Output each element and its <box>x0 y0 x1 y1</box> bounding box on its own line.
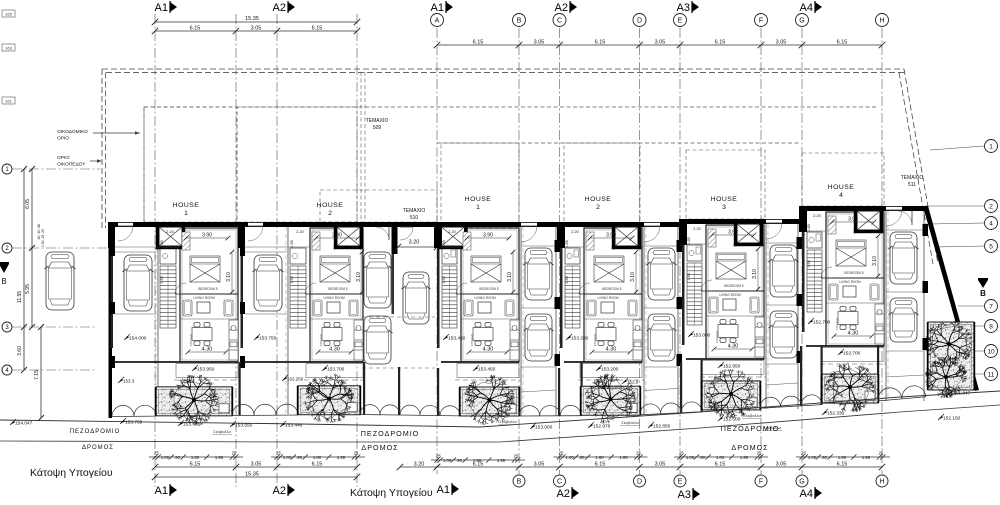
svg-text:153.3: 153.3 <box>123 379 135 384</box>
dining table <box>596 323 616 346</box>
svg-text:25: 25 <box>154 451 159 456</box>
plot boundary: double dashed outer property line <box>102 69 904 228</box>
svg-text:Σκυβαλλα: Σκυβαλλα <box>621 420 639 425</box>
svg-text:4.30: 4.30 <box>606 347 617 353</box>
car 1 <box>524 248 554 300</box>
light shaft <box>438 227 467 249</box>
svg-text:25: 25 <box>636 451 641 456</box>
bedroom dim 3.90 <box>590 237 632 239</box>
svg-text:1: 1 <box>476 204 480 211</box>
svg-text:2.20: 2.20 <box>166 230 173 234</box>
bottom dim 3.20 passage <box>400 466 437 468</box>
bedroom wall <box>826 277 884 279</box>
svg-text:25: 25 <box>514 454 519 459</box>
svg-text:BEDROOM 5: BEDROOM 5 <box>602 287 621 291</box>
WC <box>442 248 457 264</box>
svg-text:A1: A1 <box>437 484 450 496</box>
svg-text:25: 25 <box>801 451 806 456</box>
svg-text:.90: .90 <box>821 455 827 460</box>
garden bed <box>821 374 879 403</box>
svg-text:153.450: 153.450 <box>478 367 496 373</box>
garden party walls extending to street <box>239 362 241 416</box>
svg-text:8: 8 <box>989 323 993 330</box>
party wall left <box>679 219 687 245</box>
svg-text:ΠΕΖΟΔΡΟΜΙΟ: ΠΕΖΟΔΡΟΜΙΟ <box>721 424 780 433</box>
svg-text:1.90: 1.90 <box>565 276 569 283</box>
terrace step dashed line <box>174 379 240 381</box>
party wall left <box>108 222 115 248</box>
sofa <box>313 300 322 316</box>
dim chain 6.15/3.05/6.15 left plan <box>155 30 357 32</box>
svg-text:Σκυβαλλα: Σκυβαλλα <box>499 419 517 424</box>
svg-text:153.700: 153.700 <box>327 367 345 373</box>
rear yard dashed rect house R4 <box>802 153 884 206</box>
svg-text:5.95: 5.95 <box>25 284 31 294</box>
entrance door <box>644 225 660 227</box>
stair <box>160 266 176 328</box>
bottom subdivided dims left plan house1 <box>149 456 243 458</box>
road edge line <box>0 405 1000 442</box>
svg-text:10: 10 <box>987 348 995 355</box>
svg-text:163: 163 <box>5 45 12 50</box>
dining table <box>473 323 493 346</box>
svg-text:6.15: 6.15 <box>473 462 484 468</box>
interior dims <box>877 236 879 276</box>
garden bed <box>580 386 641 415</box>
stair <box>442 266 457 328</box>
svg-text:HOUSE: HOUSE <box>585 196 612 203</box>
svg-text:KITCHEN: KITCHEN <box>319 334 323 346</box>
svg-text:3.05: 3.05 <box>776 40 787 46</box>
svg-text:A2: A2 <box>273 485 286 497</box>
svg-text:A1: A1 <box>155 485 168 497</box>
svg-text:3.05: 3.05 <box>251 462 262 468</box>
svg-text:154.047: 154.047 <box>15 421 33 427</box>
svg-text:152.330: 152.330 <box>827 411 845 417</box>
svg-text:HOUSE: HOUSE <box>465 196 492 203</box>
svg-text:1.95: 1.95 <box>619 455 628 460</box>
svg-text:1.80: 1.80 <box>191 455 200 460</box>
bottom subdivided dims right plan house3 <box>674 456 768 458</box>
bedroom dim 3.90 <box>467 237 509 239</box>
svg-text:3.10: 3.10 <box>226 272 232 282</box>
svg-text:3.10: 3.10 <box>507 272 513 282</box>
terrace step dashed line <box>820 363 886 365</box>
svg-text:1.65: 1.65 <box>290 240 294 247</box>
svg-text:1.65: 1.65 <box>442 240 446 247</box>
svg-text:3.10: 3.10 <box>630 272 636 282</box>
stair <box>290 266 306 328</box>
svg-text:2.20: 2.20 <box>571 230 578 234</box>
driveway edges <box>765 224 767 409</box>
wardrobe <box>708 229 716 247</box>
garden tree <box>705 369 755 419</box>
rear yard dashed line right plan <box>437 142 800 144</box>
retaining arcs segment 1 <box>232 404 298 415</box>
svg-text:6.15: 6.15 <box>312 462 323 468</box>
svg-text:3.05: 3.05 <box>655 40 666 46</box>
thick diagonal boundary wall right <box>924 206 979 391</box>
svg-text:KITCHEN: KITCHEN <box>470 334 474 346</box>
street parked car far left <box>45 252 76 310</box>
svg-text:6.15: 6.15 <box>595 462 606 468</box>
svg-text:LIVING ROOM: LIVING ROOM <box>474 296 496 300</box>
WC <box>160 248 176 264</box>
svg-text:1.80: 1.80 <box>595 455 604 460</box>
wardrobe <box>182 232 190 250</box>
svg-text:LIVING ROOM: LIVING ROOM <box>597 296 619 300</box>
svg-text:1.80: 1.80 <box>716 455 725 460</box>
svg-text:1.95: 1.95 <box>740 455 749 460</box>
svg-text:ΔΡΟΜΟΣ: ΔΡΟΜΟΣ <box>361 443 398 452</box>
svg-text:1.95: 1.95 <box>497 458 506 463</box>
svg-text:25: 25 <box>232 451 237 456</box>
party wall left <box>238 222 245 248</box>
svg-text:2.20: 2.20 <box>813 214 820 218</box>
parcel 511 tree lower <box>925 356 967 399</box>
driveway edges <box>643 227 645 415</box>
driveway edges <box>157 227 159 414</box>
level mark 152.150 <box>938 416 943 420</box>
bedroom bed <box>836 240 866 266</box>
bedroom bed <box>190 256 220 282</box>
rooms outline <box>584 228 642 362</box>
level mark 153.446 <box>280 423 285 427</box>
grid circles top A-H <box>431 14 444 27</box>
svg-text:LIVING ROOM: LIVING ROOM <box>193 296 215 300</box>
bedroom wall <box>461 293 519 295</box>
driveway threshold lines <box>521 245 555 247</box>
svg-text:ΔΡΟΜΟΣ: ΔΡΟΜΟΣ <box>731 443 768 452</box>
house unit top wall <box>682 219 802 224</box>
light shaft <box>734 224 763 246</box>
svg-text:153.200: 153.200 <box>601 367 619 373</box>
svg-text:1.95: 1.95 <box>215 455 224 460</box>
entrance door <box>886 209 902 211</box>
parcel 511 tree upper <box>925 320 973 367</box>
svg-text:3.05: 3.05 <box>776 462 787 468</box>
columns <box>797 237 803 249</box>
passage door arcs <box>388 227 390 240</box>
svg-text:1.80: 1.80 <box>313 455 322 460</box>
svg-text:1.65: 1.65 <box>807 224 811 231</box>
kitchen counter <box>354 320 363 360</box>
svg-text:KITCHEN: KITCHEN <box>715 331 719 343</box>
svg-text:3.10: 3.10 <box>752 269 758 279</box>
bedroom bed <box>320 256 350 282</box>
interior dims <box>757 249 759 289</box>
svg-text:KITCHEN: KITCHEN <box>835 318 839 330</box>
svg-text:6.15: 6.15 <box>473 40 484 46</box>
svg-text:C: C <box>557 18 562 25</box>
rear yard dashed rect house R2 <box>564 143 640 223</box>
svg-text:G: G <box>799 18 804 25</box>
section grid lines left plan (dash-dot) <box>154 14 156 487</box>
svg-text:Σκυβαλλα: Σκυβαλλα <box>213 429 231 434</box>
kitchen counter <box>755 317 764 357</box>
svg-text:A2: A2 <box>555 2 568 14</box>
sofa <box>587 300 596 316</box>
grid circles bottom B-H <box>513 475 525 487</box>
bottom wall / terrace <box>114 361 238 363</box>
svg-text:7.15: 7.15 <box>34 370 40 380</box>
svg-text:ΤΕΜΑΧΙΟ: ΤΕΜΑΧΙΟ <box>403 208 426 214</box>
svg-text:4.30: 4.30 <box>329 347 340 353</box>
svg-text:511: 511 <box>908 182 916 188</box>
rooms outline <box>826 212 884 346</box>
svg-text:153.950: 153.950 <box>197 367 215 373</box>
light shaft <box>612 227 641 249</box>
svg-text:A1: A1 <box>155 2 168 14</box>
svg-text:1.00: 1.00 <box>161 455 170 460</box>
svg-text:25: 25 <box>559 451 564 456</box>
svg-text:E: E <box>678 18 683 25</box>
svg-text:ΤΕΜΑΧΙΟ: ΤΕΜΑΧΙΟ <box>901 175 924 181</box>
plot boundary: diagonal right edge double dashed <box>899 69 938 264</box>
house unit top wall <box>110 222 240 227</box>
svg-text:ΠΕΖΟΔΡΟΜΙΟ: ΠΕΖΟΔΡΟΜΙΟ <box>70 429 121 435</box>
svg-text:6.15: 6.15 <box>312 26 323 32</box>
bedroom dim 3.90 <box>712 234 754 236</box>
svg-text:153.450: 153.450 <box>448 336 466 342</box>
svg-text:153.550: 153.550 <box>235 423 253 429</box>
svg-text:3.10: 3.10 <box>872 256 878 266</box>
coffee table <box>327 302 340 313</box>
coffee table <box>601 302 614 313</box>
retaining arcs segment 0 <box>112 405 156 416</box>
terrace step dashed line <box>578 379 644 381</box>
party wall left <box>434 222 442 248</box>
garden tree <box>585 373 636 423</box>
bottom chain right plan <box>437 466 882 468</box>
columns <box>677 240 683 252</box>
svg-text:3.90: 3.90 <box>606 233 616 239</box>
svg-text:ΟΙΚΟΔΟΜΙΚΟ: ΟΙΚΟΔΟΜΙΚΟ <box>57 129 88 135</box>
svg-text:KITCHEN: KITCHEN <box>593 334 597 346</box>
bottom chain 15.35 left plan <box>155 476 357 478</box>
svg-text:25: 25 <box>436 454 441 459</box>
interior dims <box>635 252 637 292</box>
sofa <box>464 300 473 316</box>
svg-text:3.90: 3.90 <box>202 233 212 239</box>
svg-text:ΔΡΟΜΟΣ: ΔΡΟΜΟΣ <box>82 445 114 451</box>
svg-text:D: D <box>637 18 642 25</box>
light shaft <box>156 227 185 249</box>
svg-text:3.90: 3.90 <box>848 217 858 223</box>
passage dashed lines <box>362 316 435 318</box>
level mark 152.500 <box>718 417 723 421</box>
svg-text:Κάτοψη Υπογείου: Κάτοψη Υπογείου <box>30 467 113 479</box>
svg-text:B: B <box>517 479 522 486</box>
svg-text:LIVING ROOM: LIVING ROOM <box>839 280 861 284</box>
level mark 152.850 <box>648 424 653 428</box>
svg-text:1: 1 <box>989 143 993 150</box>
svg-text:153.446: 153.446 <box>285 423 303 429</box>
svg-text:1.00: 1.00 <box>283 455 292 460</box>
rear yard dashed rect house L2 <box>237 107 357 222</box>
rooms outline <box>310 228 363 362</box>
svg-text:ΟΡΙΟ: ΟΡΙΟ <box>57 136 69 142</box>
WC <box>807 232 822 248</box>
bottom wall / terrace <box>806 345 884 347</box>
bottom subdivided dims left plan house2 <box>271 456 365 458</box>
sofa <box>183 300 192 316</box>
svg-text:152.700: 152.700 <box>813 320 831 326</box>
svg-text:BEDROOM 5: BEDROOM 5 <box>724 284 743 288</box>
svg-text:1.65: 1.65 <box>160 240 164 247</box>
svg-text:154.000: 154.000 <box>129 336 147 342</box>
svg-text:1.00: 1.00 <box>808 455 817 460</box>
kitchen counter <box>510 320 519 360</box>
svg-text:4.30: 4.30 <box>483 347 494 353</box>
terrace step dashed line <box>700 376 766 378</box>
svg-text:F: F <box>759 479 763 486</box>
bottom wall / terrace <box>564 361 642 363</box>
dim chain right plan top <box>437 44 882 46</box>
svg-text:11: 11 <box>988 371 995 378</box>
svg-text:1.95: 1.95 <box>337 455 346 460</box>
coffee table <box>197 302 210 313</box>
party wall left <box>799 206 807 232</box>
driveway edges <box>885 211 887 401</box>
rear yard dashed rect house R1 <box>441 143 519 227</box>
door arc house 4 right end <box>911 211 913 225</box>
svg-text:HOUSE: HOUSE <box>173 202 200 209</box>
svg-text:3.05: 3.05 <box>655 462 666 468</box>
entrance door <box>248 225 263 227</box>
car 2 <box>524 314 554 361</box>
bedroom bed <box>471 256 501 282</box>
terrace step dashed line <box>304 379 365 381</box>
car 2 <box>889 298 919 342</box>
kitchen counter <box>633 320 642 360</box>
level mark 153.739 <box>120 420 125 424</box>
bedroom bed <box>716 253 746 279</box>
svg-text:KITCHEN: KITCHEN <box>189 334 193 346</box>
sofa <box>829 284 838 300</box>
svg-text:25: 25 <box>276 451 281 456</box>
sidewalk edge line <box>0 391 1000 427</box>
garden tree <box>304 374 354 424</box>
svg-text:1.00: 1.00 <box>443 458 452 463</box>
interior dims <box>231 252 233 292</box>
svg-text:HOUSE: HOUSE <box>828 184 855 191</box>
WC <box>565 248 580 264</box>
svg-text:6.15: 6.15 <box>190 26 201 32</box>
svg-text:ΟΡΙΟ:: ΟΡΙΟ: <box>57 155 70 161</box>
svg-text:1.90: 1.90 <box>687 273 691 280</box>
svg-text:3.20: 3.20 <box>414 462 425 468</box>
svg-text:F: F <box>759 18 763 25</box>
coffee table <box>478 302 491 313</box>
svg-text:E: E <box>678 479 683 486</box>
svg-text:6.15: 6.15 <box>190 462 201 468</box>
bedroom dim 3.90 <box>186 237 228 239</box>
level mark 153.651 <box>178 422 183 426</box>
left margin revision tags <box>2 10 15 17</box>
driveway threshold lines <box>115 251 156 253</box>
svg-text:.90: .90 <box>456 458 462 463</box>
left vertical dim chain outer <box>23 169 25 370</box>
passage strip TEMAXIO 510 walls <box>365 222 437 227</box>
bedroom wall <box>310 293 363 295</box>
svg-text:.90: .90 <box>699 455 705 460</box>
svg-text:A4: A4 <box>800 2 813 14</box>
rooms outline <box>706 225 764 359</box>
stair <box>807 250 822 312</box>
level mark 151.847 <box>948 391 953 395</box>
driveway edges <box>287 227 289 414</box>
svg-text:2: 2 <box>989 203 993 210</box>
svg-text:ΠΕΖΟΔΡΟΜΙΟ: ΠΕΖΟΔΡΟΜΙΟ <box>361 429 420 438</box>
svg-text:H: H <box>879 479 884 486</box>
dim chain 15.35 left plan <box>155 21 357 23</box>
svg-text:5: 5 <box>989 243 993 250</box>
svg-text:A2: A2 <box>557 488 570 500</box>
svg-text:4: 4 <box>839 192 843 199</box>
svg-text:1.00: 1.00 <box>565 455 574 460</box>
level mark 153.000 <box>530 425 535 429</box>
svg-text:3.90: 3.90 <box>332 233 342 239</box>
interior dims <box>512 252 514 292</box>
car 1 <box>647 248 677 300</box>
svg-text:510: 510 <box>410 215 419 221</box>
columns <box>923 224 929 236</box>
wardrobe <box>312 232 320 250</box>
interior dims <box>361 252 363 292</box>
bedroom dim 3.90 <box>832 221 874 223</box>
building setback dashed line <box>144 106 877 108</box>
svg-text:2.20: 2.20 <box>448 230 455 234</box>
retaining arcs segment 2 <box>360 405 460 416</box>
svg-text:152.150: 152.150 <box>943 416 961 422</box>
svg-text:4: 4 <box>989 220 993 227</box>
svg-text:1.65: 1.65 <box>687 237 691 244</box>
svg-text:.90: .90 <box>174 455 180 460</box>
svg-text:.90: .90 <box>296 455 302 460</box>
garden bed <box>297 386 361 415</box>
svg-text:2: 2 <box>328 210 332 217</box>
svg-text:A4: A4 <box>800 488 813 500</box>
columns <box>110 244 115 256</box>
retaining arcs segment 5 <box>760 395 822 408</box>
retaining arcs segment 3 <box>519 405 581 416</box>
dining table <box>838 307 858 330</box>
svg-text:LIVING ROOM: LIVING ROOM <box>719 293 741 297</box>
house unit top wall <box>560 222 682 227</box>
svg-text:153.000: 153.000 <box>693 333 711 339</box>
light shaft <box>334 227 363 249</box>
svg-text:11.55: 11.55 <box>17 291 23 303</box>
svg-text:3.90: 3.90 <box>483 233 493 239</box>
light shaft <box>854 211 883 233</box>
svg-text:1.50 .15 .25: 1.50 .15 .25 <box>41 229 45 247</box>
level mark 153.550 <box>230 423 235 427</box>
left vertical dim chain 7.15 <box>40 327 42 418</box>
svg-text:3.05: 3.05 <box>534 462 545 468</box>
svg-text:153.200: 153.200 <box>606 385 623 390</box>
svg-text:Σκυβαλλα: Σκυβαλλα <box>743 413 761 418</box>
svg-text:152.9: 152.9 <box>627 379 639 384</box>
grid lines right plan (dash-dot) <box>436 28 438 474</box>
car 1 <box>889 232 919 284</box>
svg-text:.90: .90 <box>579 455 585 460</box>
driveway edges <box>520 227 522 416</box>
entrance door <box>521 225 537 227</box>
house unit top wall <box>802 206 928 211</box>
svg-text:4.30: 4.30 <box>848 331 859 337</box>
car 2 <box>769 311 799 358</box>
